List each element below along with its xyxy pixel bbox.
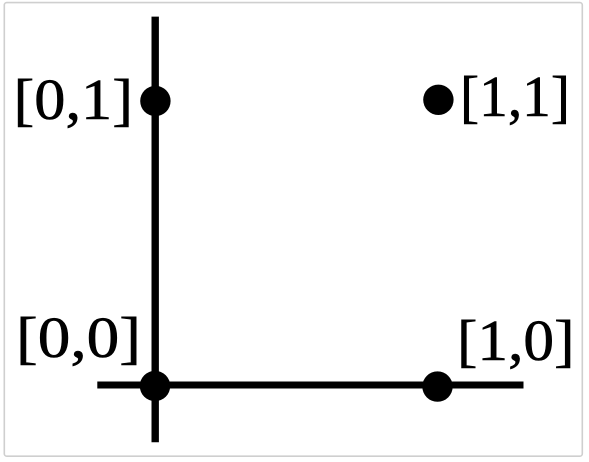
svg-text:[0,1]: [0,1] [14, 67, 134, 132]
svg-text:[0,0]: [0,0] [16, 305, 141, 370]
svg-text:[1,1]: [1,1] [460, 64, 570, 129]
svg-text:[1,0]: [1,0] [457, 308, 575, 373]
